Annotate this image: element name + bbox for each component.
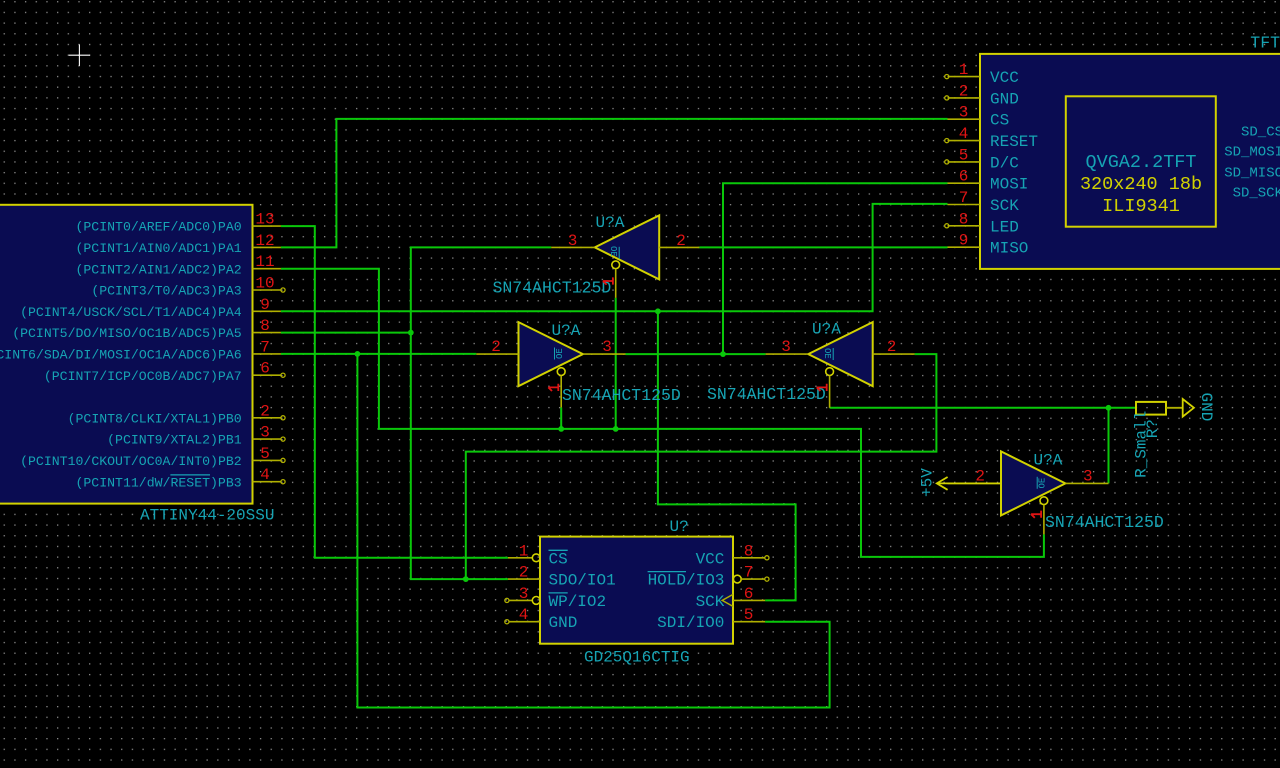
svg-text:3: 3 [260,424,270,442]
pin 2 input stub U1 [658,246,699,248]
junction PA5/MISO column [408,330,414,336]
pin 6 stub flash [733,599,765,601]
resistor right lead [1166,407,1183,409]
pin 8 open end TFT [945,224,949,228]
svg-text:8: 8 [744,542,754,560]
ground GND symbol arrow [1183,399,1194,417]
pin 5 stub flash [733,621,765,623]
pin 4 stub flash [509,621,540,623]
svg-text:ATTINY44-20SSU: ATTINY44-20SSU [140,507,274,525]
pin 5 open end U5 [281,458,285,462]
svg-text:CS: CS [990,112,1009,130]
svg-text:GND: GND [1197,393,1215,422]
svg-text:(PCINT1/AIN0/ADC1)PA1: (PCINT1/AIN0/ADC1)PA1 [75,241,241,256]
svg-text:+5V: +5V [919,468,937,497]
svg-text:SCK: SCK [990,197,1019,215]
pin 6 stub TFT [948,182,981,184]
pin 1 OE stub U3 [829,376,831,408]
OE overline U4 [1036,477,1038,489]
IC U5 ATTINY44-20SSU body [0,205,253,504]
pin 1 OE stub U4 [1043,505,1045,535]
pin 3 stub TFT [948,118,981,120]
svg-text:3: 3 [959,104,969,122]
svg-text:VCC: VCC [990,69,1019,87]
svg-text:(PCINT8/CLKI/XTAL1)PB0: (PCINT8/CLKI/XTAL1)PB0 [68,411,242,426]
wire U1 OE down to enable net [615,298,617,429]
pin 2 open end U5 [281,416,285,420]
svg-text:5: 5 [959,146,969,164]
svg-text:LED: LED [990,218,1019,236]
svg-text:RESET: RESET [990,133,1038,151]
svg-text:6: 6 [744,585,754,603]
svg-text:SN74AHCT125D: SN74AHCT125D [707,385,826,404]
svg-text:(PCINT0/AREF/ADC0)PA0: (PCINT0/AREF/ADC0)PA0 [75,220,241,235]
wire MISO net right segment TFT MISO to U1 in [699,246,947,248]
svg-text:OE: OE [1038,478,1048,489]
svg-text:5: 5 [260,445,270,463]
svg-text:320x240 18b: 320x240 18b [1080,174,1202,195]
svg-text:11: 11 [255,253,274,271]
pin 6 open end U5 [281,373,285,377]
ERC marker U1 [603,277,613,284]
pin 7 stub TFT [948,204,981,206]
OE overline U2 [554,348,556,360]
wire flash SDO to U3 input [466,354,937,579]
svg-text:MISO: MISO [990,240,1028,258]
svg-text:OE: OE [608,246,618,257]
TFT inner graphic box [1066,96,1216,226]
clock wedge SCK pin 6 flash [722,594,733,606]
pin 4 open end TFT [945,139,949,143]
svg-text:SCK: SCK [696,593,725,611]
svg-text:ILI9341: ILI9341 [1102,196,1180,217]
pin 2 stub flash [508,578,540,580]
wire U2 OE to enable net [560,407,562,429]
svg-text:(PCINT2/AIN1/ADC2)PA2: (PCINT2/AIN1/ADC2)PA2 [75,262,241,277]
junction U2 OE on enable net [558,426,564,432]
junction flash SDO pin2 [463,576,469,582]
wire U4 OE row to resistor [830,407,1136,409]
pin 3 open end U5 [281,437,285,441]
svg-text:SD_CS: SD_CS [1241,125,1280,141]
pin 4 stub U5 [253,481,281,483]
svg-text:4: 4 [260,466,270,484]
buffer U4 triangle [1001,451,1065,515]
svg-text:9: 9 [260,296,270,314]
svg-text:12: 12 [255,232,274,250]
junction resistor node [1106,405,1112,411]
svg-text:D/C: D/C [990,154,1019,172]
pin 1 CS stub flash [508,557,532,559]
junction U1 OE on enable net [613,426,619,432]
svg-text:R?: R? [1144,419,1162,438]
svg-text:WP/IO2: WP/IO2 [549,593,607,611]
buffer U2 triangle [519,322,583,386]
pin 6 stub U5 [253,374,281,376]
pin 2 open end TFT [945,96,949,100]
svg-text:(PCINT5/DO/MISO/OC1B/ADC5)PA5: (PCINT5/DO/MISO/OC1B/ADC5)PA5 [12,326,242,341]
svg-text:7: 7 [959,189,969,207]
svg-text:OE: OE [822,348,832,359]
pin 11 stub U5 [253,268,281,270]
svg-text:HOLD/IO3: HOLD/IO3 [648,572,725,590]
pin 2 input stub U3 [873,353,915,355]
ERC marker U2 [548,384,558,391]
svg-text:MOSI: MOSI [990,176,1028,194]
pin 10 open end U5 [281,288,285,292]
svg-text:SDI/IO0: SDI/IO0 [657,614,724,632]
svg-text:2: 2 [959,82,969,100]
pin 7 open end flash [765,577,769,581]
wire SCK branch to flash SCK pin6 [658,311,796,600]
pin 3 WP stub flash [509,599,532,601]
svg-text:(PCINT11/dW/RESET)PB3: (PCINT11/dW/RESET)PB3 [75,475,241,490]
svg-text:8: 8 [260,317,270,335]
pin 8 stub TFT [948,225,981,227]
svg-text:(PCINT6/SDA/DI/MOSI/OC1A/ADC6): (PCINT6/SDA/DI/MOSI/OC1A/ADC6)PA6 [0,348,242,363]
pin 7 inversion bubble flash [733,575,741,583]
svg-text:GD25Q16CTIG: GD25Q16CTIG [584,649,690,667]
resistor R1 R_Small body [1136,402,1166,415]
pin 7 stub U5 [253,353,281,355]
junction MOSI row to TFT [720,351,726,357]
pin 9 stub TFT [948,246,981,248]
pin 3 stub U5 [253,438,281,440]
svg-text:2: 2 [260,402,270,420]
pin 5 open end TFT [945,160,949,164]
buffer U1 triangle [595,215,659,279]
wire PA6 pin7 MOSI to U2 input [281,353,476,355]
svg-text:SN74AHCT125D: SN74AHCT125D [562,386,681,405]
svg-text:1: 1 [519,542,529,560]
wire MOSI row up to TFT MOSI pin6 [723,183,948,354]
svg-text:SDO/IO1: SDO/IO1 [549,572,616,590]
pin 4 open end flash [505,620,509,624]
svg-text:VCC: VCC [696,550,725,568]
pin 3 inversion bubble flash [532,597,540,605]
svg-text:U?A: U?A [812,321,841,339]
svg-text:SD_SCK: SD_SCK [1233,186,1280,202]
svg-text:(PCINT10/CKOUT/OC0A/INT0)PB2: (PCINT10/CKOUT/OC0A/INT0)PB2 [20,454,242,469]
svg-text:13: 13 [255,211,274,229]
svg-text:5: 5 [744,606,754,624]
pin 3 output stub U3 [766,353,809,355]
svg-text:4: 4 [519,606,529,624]
svg-text:(PCINT7/ICP/OC0B/ADC7)PA7: (PCINT7/ICP/OC0B/ADC7)PA7 [44,369,242,384]
svg-text:7: 7 [260,338,270,356]
ERC marker U4 [1031,511,1041,518]
pin 4 stub TFT [948,140,981,142]
overline WP flash [549,592,568,594]
overline HOLD flash [648,571,686,573]
cursor crosshair [69,45,90,66]
pin 3 output stub U1 [551,246,595,248]
pin 4 open end U5 [281,480,285,484]
wire U4 output up to resistor node [1108,408,1110,484]
svg-text:SN74AHCT125D: SN74AHCT125D [1045,513,1164,532]
pin 8 open end flash [765,556,769,560]
pin 1 stub TFT [948,76,981,78]
svg-text:7: 7 [744,564,754,582]
OE inversion bubble U2 [557,368,565,376]
wire PA2 pin11 OE enable net [281,269,1044,557]
svg-text:10: 10 [255,275,274,293]
pin 12 stub U5 [253,246,281,248]
pin 8 stub flash [733,557,765,559]
svg-text:4: 4 [959,125,969,143]
wire MISO net left segment U1 out to flash SDO [411,247,551,579]
svg-text:SD_MISO: SD_MISO [1224,165,1280,181]
pin 3 output stub U4 [1065,482,1108,484]
buffer U3 triangle [808,322,872,386]
pin 9 stub U5 [253,310,281,312]
pin 8 stub U5 [253,332,281,334]
svg-text:TFT1: TFT1 [1250,33,1280,52]
pin 13 stub U5 [253,225,281,227]
pin 5 stub U5 [253,459,281,461]
OE overline U3 [832,348,834,360]
svg-text:3: 3 [519,585,529,603]
pin 2 input stub U2 [476,353,518,355]
ERC marker U3 [817,384,827,391]
pin 1 OE stub U1 [615,269,617,298]
svg-text:GND: GND [549,614,578,632]
wire PA5 pin8 stub to MISO column [281,332,411,334]
svg-text:6: 6 [959,168,969,186]
svg-text:8: 8 [959,210,969,228]
pin 5 stub TFT [948,161,981,163]
junction SCK branch [655,308,661,314]
svg-text:9: 9 [959,232,969,250]
svg-text:SD_MOSI: SD_MOSI [1224,145,1280,161]
svg-text:(PCINT9/XTAL2)PB1: (PCINT9/XTAL2)PB1 [107,433,242,448]
pin 1 inversion bubble flash [532,554,540,562]
pin 2 stub U5 [253,417,281,419]
OE inversion bubble U4 [1040,497,1048,505]
svg-text:(PCINT3/T0/ADC3)PA3: (PCINT3/T0/ADC3)PA3 [91,284,241,299]
pin 3 output stub U2 [583,353,626,355]
svg-text:U?A: U?A [596,214,625,232]
svg-text:U?A: U?A [552,322,581,340]
svg-text:(PCINT4/USCK/SCL/T1/ADC4)PA4: (PCINT4/USCK/SCL/T1/ADC4)PA4 [20,305,242,320]
wire PA0 pin13 to flash CS pin1 [281,226,508,558]
svg-text:U?: U? [670,518,689,536]
pin 7 stub flash [741,578,765,580]
svg-text:6: 6 [260,360,270,378]
wire U2 output to U3 output row [626,353,766,355]
svg-text:SN74AHCT125D: SN74AHCT125D [493,279,612,298]
junction PA6/MOSI branch [355,351,361,357]
svg-text:U?A: U?A [1034,452,1063,470]
IC U6 GD25Q16CTIG body [540,537,733,644]
svg-text:QVGA2.2TFT: QVGA2.2TFT [1085,152,1196,173]
pin 1 open end TFT [945,75,949,79]
overline RESET on PB3 pin name [170,474,210,476]
svg-text:CS: CS [549,550,568,568]
svg-text:GND: GND [990,90,1019,108]
wire PA4 pin9 SCK net to TFT SCK [281,204,948,311]
pin 2 input stub U4 [948,482,1001,484]
pin 3 open end flash [505,598,509,602]
OE inversion bubble U3 [826,368,834,376]
OE inversion bubble U1 [612,261,620,269]
wire MOSI branch to flash SDI pin5 [357,354,829,708]
pin 2 stub TFT [948,97,981,99]
pin 10 stub U5 [253,289,281,291]
power +5V arrow chevron [937,477,948,490]
OE overline U1 [618,247,620,259]
svg-text:1: 1 [959,61,969,79]
svg-text:OE: OE [555,348,565,359]
overline CS flash [549,549,568,551]
wire PA1 pin12 to TFT CS pin3 [281,119,948,248]
svg-text:2: 2 [519,564,529,582]
pin 1 OE stub U2 [560,376,562,408]
connector TFT body [980,54,1280,269]
power +5V pin line [937,482,1001,484]
